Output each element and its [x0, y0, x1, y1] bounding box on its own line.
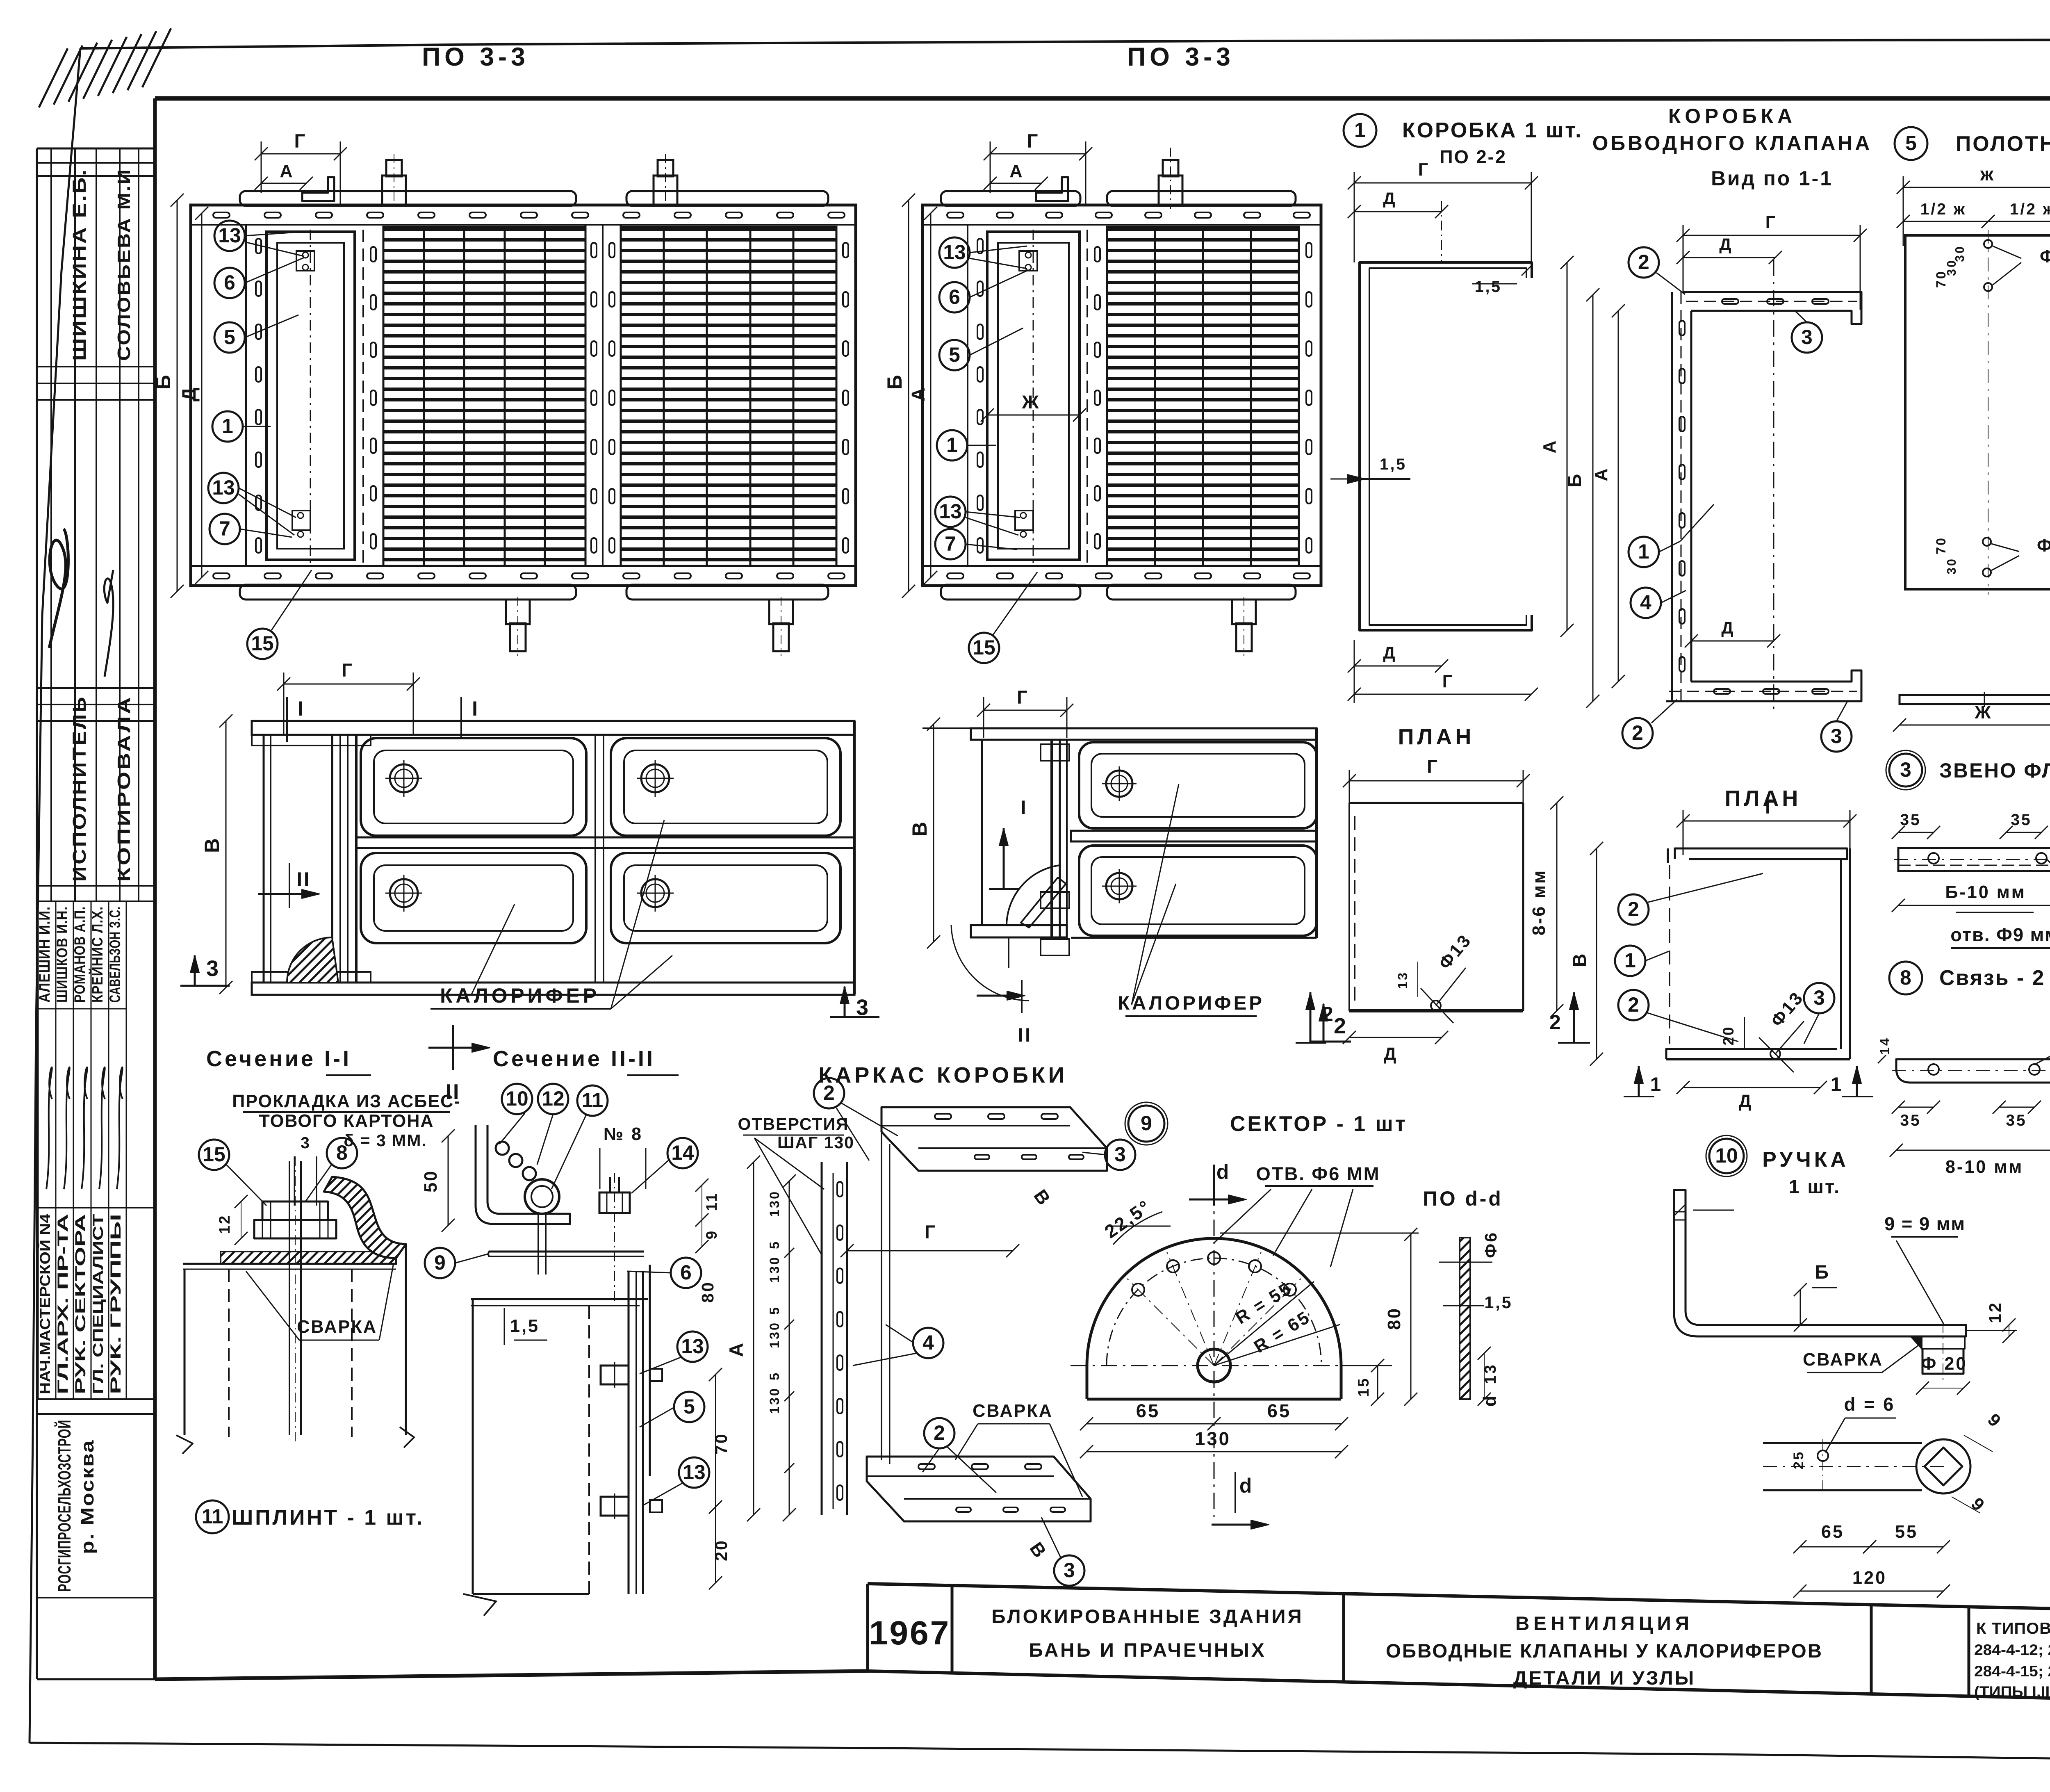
- section II-II L bracket: [476, 1125, 570, 1224]
- section I-I bolt stack: [262, 1202, 328, 1220]
- radiator 1 door hinge plates: [296, 251, 314, 271]
- vid callout 2 top: [1629, 247, 1659, 278]
- svg-text:Г: Г: [1765, 797, 1777, 818]
- svg-text:130: 130: [1195, 1428, 1231, 1449]
- svg-text:ВЕНТИЛЯЦИЯ: ВЕНТИЛЯЦИЯ: [1515, 1613, 1693, 1635]
- svg-text:Сечение II-II: Сечение II-II: [493, 1046, 655, 1071]
- radiator 2 top flange tabs: [941, 191, 1080, 206]
- front view 2 door leaf edge: [1050, 740, 1053, 938]
- section II-II bolt low: [601, 1497, 629, 1516]
- svg-text:В: В: [908, 820, 931, 837]
- svg-text:1: 1: [1650, 1074, 1663, 1095]
- svg-text:10: 10: [1715, 1144, 1738, 1167]
- radiator 2 callout 13b: [935, 497, 966, 527]
- section II-II dim 50: [448, 1136, 449, 1225]
- sheet left edge: [30, 48, 80, 1743]
- svg-text:14: 14: [1877, 1037, 1892, 1055]
- plan1 dim 8-6mm: [1556, 803, 1558, 1011]
- svg-text:13: 13: [212, 476, 235, 499]
- plan2 callout 2a: [1618, 894, 1649, 925]
- front view 2 bottom rail: [971, 925, 1067, 937]
- polotno strip below: [1900, 695, 2050, 704]
- radiator 1 door: [266, 232, 355, 560]
- karkas inner vertical: [881, 1132, 882, 1460]
- radiator 1 left slot column: [256, 239, 261, 253]
- sektor centrelines: [1071, 1365, 1374, 1366]
- svg-text:14: 14: [671, 1141, 694, 1164]
- label sektor: [1128, 1106, 1164, 1142]
- plan2 callout 1: [1615, 946, 1645, 976]
- svg-text:Г: Г: [1427, 756, 1439, 777]
- vid top flange: [1683, 292, 1861, 324]
- svg-text:d: d: [1216, 1160, 1230, 1183]
- front view 1 dim G top: [284, 684, 413, 685]
- radiator 2 callout 7: [935, 529, 966, 559]
- svg-text:9 = 9 мм: 9 = 9 мм: [1884, 1213, 1966, 1234]
- svg-text:3: 3: [1114, 1143, 1126, 1166]
- svg-text:13: 13: [683, 1461, 705, 1484]
- sektor hole circle dashdot: [1107, 1258, 1321, 1366]
- svg-text:130: 130: [767, 1321, 782, 1348]
- svg-text:15: 15: [203, 1143, 225, 1166]
- svg-text:3: 3: [206, 956, 220, 981]
- front view 1 panel row1 left: [361, 738, 586, 836]
- svg-text:3: 3: [301, 1134, 311, 1152]
- svg-text:К ТИПОВЫМ ПРОЕКТАМ: К ТИПОВЫМ ПРОЕКТАМ: [1976, 1620, 2050, 1637]
- section I-I washer plate: [221, 1252, 396, 1264]
- radiator 2 dashed jamb: [1086, 230, 1088, 564]
- corner herringbone marks: [39, 48, 68, 107]
- radiator 1 callout 13a: [214, 221, 245, 251]
- radiator 2 handle bracket top: [1036, 177, 1068, 201]
- svg-text:Б: Б: [1564, 472, 1585, 488]
- ruchka L-shape: [1674, 1190, 1966, 1336]
- svg-text:СОЛОВЬЕВА М.И: СОЛОВЬЕВА М.И: [114, 168, 134, 361]
- svg-text:II: II: [297, 869, 311, 890]
- plan1 square: [1349, 802, 1523, 804]
- svg-text:РОСГИПРОСЕЛЬХОЗСТРОЙ: РОСГИПРОСЕЛЬХОЗСТРОЙ: [55, 1420, 75, 1592]
- svg-text:ПЛАН: ПЛАН: [1725, 786, 1802, 811]
- svg-text:1: 1: [1638, 540, 1649, 563]
- svg-text:Сечение I-I: Сечение I-I: [206, 1046, 351, 1071]
- svg-text:2: 2: [1322, 1003, 1335, 1026]
- plan2 square: [1675, 848, 1847, 859]
- svg-text:Г: Г: [1017, 687, 1029, 708]
- front view 1 section mark I top: [286, 697, 288, 742]
- d-d bar: [1460, 1238, 1470, 1399]
- svg-text:7: 7: [219, 517, 230, 540]
- plan2 callout 3: [1804, 983, 1834, 1013]
- svg-text:20: 20: [712, 1539, 731, 1561]
- radiator 2 top nipple: [1163, 160, 1178, 176]
- svg-text:А: А: [1592, 467, 1611, 481]
- svg-text:120: 120: [1852, 1568, 1887, 1588]
- polotno top holes: [1984, 240, 1992, 248]
- sektor centre hole: [1198, 1349, 1230, 1382]
- section arrow II bottom: [428, 1047, 486, 1049]
- section II-II callout 13 low: [679, 1457, 709, 1488]
- front view 1 panel row1 right: [611, 738, 840, 836]
- svg-text:В: В: [1569, 952, 1590, 967]
- svg-text:Ж: Ж: [1974, 703, 1992, 723]
- section I-I plate line: [183, 1263, 396, 1265]
- stamp signature scrawl 2: [104, 570, 113, 677]
- svg-text:КАРКАС КОРОБКИ: КАРКАС КОРОБКИ: [818, 1063, 1067, 1088]
- radiator 1 callout 1: [212, 411, 243, 442]
- svg-text:35: 35: [1900, 811, 1921, 829]
- polotno centreline: [1988, 230, 1988, 595]
- svg-text:I: I: [1020, 797, 1027, 818]
- vid callout 2 bottom: [1622, 718, 1653, 748]
- svg-text:КОРОБКА: КОРОБКА: [1668, 105, 1796, 128]
- svg-text:ШПЛИНТ - 1 шт.: ШПЛИНТ - 1 шт.: [232, 1505, 424, 1529]
- sektor dim 65-65: [1086, 1423, 1214, 1425]
- svg-text:ПО d-d: ПО d-d: [1423, 1187, 1503, 1210]
- karkas callout 4: [913, 1328, 943, 1358]
- svg-text:30: 30: [1945, 557, 1959, 575]
- svg-text:Д: Д: [1719, 235, 1733, 254]
- svg-text:Б: Б: [883, 373, 906, 390]
- svg-text:СЕКТОР - 1 шт: СЕКТОР - 1 шт: [1230, 1112, 1408, 1135]
- svg-text:11: 11: [202, 1505, 223, 1528]
- front view 1 corner gusset: [287, 937, 338, 983]
- svg-text:КАЛОРИФЕР: КАЛОРИФЕР: [1118, 992, 1264, 1014]
- section I-I callout 8: [327, 1138, 357, 1168]
- karkas dim G: [847, 1250, 1013, 1252]
- front view 1 mid rail: [356, 837, 854, 848]
- karkas callout 3 top: [1105, 1140, 1135, 1170]
- svg-text:1,5: 1,5: [1380, 456, 1407, 473]
- svg-text:1: 1: [1354, 119, 1366, 141]
- vid callout 3 top: [1792, 322, 1822, 353]
- svg-text:d: d: [1480, 1394, 1500, 1407]
- plan1 section marks 2: [1310, 992, 1312, 1043]
- svg-text:65: 65: [1267, 1400, 1291, 1421]
- radiator 2 door: [987, 232, 1080, 560]
- svg-text:3: 3: [1900, 758, 1911, 781]
- svg-text:ШИШКИНА Е.Б.: ШИШКИНА Е.Б.: [69, 168, 90, 361]
- svg-text:2: 2: [823, 1081, 835, 1104]
- svg-text:70: 70: [712, 1432, 731, 1455]
- svg-text:Б-10 мм: Б-10 мм: [1945, 882, 2026, 902]
- front view 2 section I mark: [1003, 828, 1005, 889]
- radiator 2 callout 13a: [939, 237, 970, 268]
- svg-text:3: 3: [1831, 725, 1842, 748]
- svg-text:Д: Д: [1384, 1044, 1398, 1064]
- svg-text:4: 4: [922, 1331, 934, 1354]
- svg-text:1,5: 1,5: [510, 1316, 540, 1336]
- svg-text:65: 65: [1821, 1522, 1844, 1542]
- karkas callout 2 bottom: [924, 1418, 954, 1448]
- svg-text:В: В: [200, 837, 223, 853]
- svg-text:284-4-15; 284-4-16; 284-3-17: 284-4-15; 284-4-16; 284-3-17: [1974, 1663, 2050, 1680]
- vid centreline vertical: [1773, 260, 1774, 715]
- svg-text:20: 20: [1720, 1026, 1737, 1046]
- vid bottom flange: [1666, 670, 1861, 701]
- korobka C profile: [1369, 268, 1526, 625]
- svg-text:70: 70: [1934, 536, 1948, 554]
- svg-text:А: А: [1540, 439, 1560, 453]
- svg-text:ОТВ. Ф6 ММ: ОТВ. Ф6 ММ: [1256, 1163, 1380, 1184]
- polotno dims half-Zh: [1903, 221, 1988, 222]
- svg-text:А: А: [908, 386, 929, 401]
- section I-I lower box: [184, 1269, 186, 1435]
- svg-text:2: 2: [1628, 993, 1639, 1016]
- plan2 section marks 1: [1638, 1066, 1640, 1097]
- section I-I duct S-curve: [324, 1177, 406, 1258]
- sheet top edge: [80, 39, 2050, 48]
- svg-text:1 шт.: 1 шт.: [1789, 1176, 1841, 1198]
- svg-text:1: 1: [1831, 1074, 1843, 1095]
- svg-text:3: 3: [1801, 326, 1813, 349]
- front view 1 door edge strip: [331, 735, 333, 983]
- svg-text:2: 2: [1549, 1011, 1563, 1034]
- svg-text:9: 9: [703, 1229, 720, 1239]
- vid dim G top: [1683, 235, 1860, 236]
- svg-text:РУК. ГРУППЫ: РУК. ГРУППЫ: [107, 1214, 124, 1394]
- svg-text:ПЛАН: ПЛАН: [1398, 725, 1475, 749]
- label ruchka: [1709, 1139, 1744, 1173]
- section II-II horizontal rod: [489, 1251, 644, 1253]
- karkas dim ladder 130: [789, 1181, 790, 1515]
- plan1 dim D bottom: [1349, 1037, 1442, 1038]
- radiator 2 right slot column: [1306, 243, 1312, 258]
- plan1 dim G: [1349, 780, 1523, 782]
- svg-text:2: 2: [1638, 251, 1649, 274]
- svg-text:СВАРКА: СВАРКА: [1803, 1350, 1883, 1370]
- sektor dim 80: [1410, 1234, 1412, 1399]
- svg-text:Д: Д: [1383, 189, 1396, 208]
- svg-text:15: 15: [973, 636, 995, 659]
- front view 1 panel row2 left: [361, 853, 586, 943]
- svg-text:65: 65: [1136, 1400, 1160, 1421]
- svg-text:Ф9: Ф9: [2037, 536, 2050, 556]
- svg-text:5: 5: [949, 343, 960, 366]
- sektor dim 15: [1377, 1366, 1378, 1399]
- svg-text:9: 9: [1141, 1112, 1152, 1135]
- front view 2 door hinge tabs: [1041, 744, 1069, 761]
- svg-text:ПО 2-2: ПО 2-2: [1440, 146, 1507, 167]
- section II-II door plate: [628, 1271, 630, 1594]
- svg-text:6: 6: [949, 285, 960, 308]
- radiator 1 handle bracket top: [302, 177, 334, 201]
- radiator 2 dim A left: [930, 213, 932, 577]
- karkas dim A: [753, 1162, 754, 1515]
- ruchka weld triangle: [1911, 1336, 1922, 1349]
- svg-text:13: 13: [218, 224, 241, 247]
- section II-II callout 9: [425, 1248, 455, 1278]
- radiator 1 dashed jamb line: [362, 230, 364, 564]
- svg-text:1,5: 1,5: [1484, 1293, 1512, 1312]
- svg-text:35: 35: [2006, 1112, 2027, 1129]
- svg-text:СВАРКА: СВАРКА: [297, 1317, 377, 1337]
- svg-text:КАЛОРИФЕР: КАЛОРИФЕР: [440, 984, 600, 1007]
- svg-text:ПОЛОТНО 1 шт.: ПОЛОТНО 1 шт.: [1956, 132, 2050, 155]
- svg-text:284-4-12; 284-4-13; 284-3-14: 284-4-12; 284-4-13; 284-3-14: [1974, 1642, 2050, 1658]
- svg-text:5: 5: [224, 326, 235, 349]
- drawing frame: [155, 96, 2050, 101]
- front view 1 section mark I inner: [460, 697, 462, 738]
- radiator 1 callout 7: [210, 514, 240, 544]
- front view 1 left top flange: [252, 735, 371, 746]
- svg-text:КОРОБКА 1 шт.: КОРОБКА 1 шт.: [1402, 118, 1583, 142]
- front view 2 left wall: [981, 740, 983, 925]
- section II-II panel top line: [471, 1298, 648, 1300]
- front view 2 mid rail: [1071, 831, 1317, 841]
- karkas callout 3 bottom: [1054, 1555, 1084, 1586]
- radiator 1 dim D left: [201, 213, 203, 577]
- svg-text:ДЕТАЛИ И УЗЛЫ: ДЕТАЛИ И УЗЛЫ: [1513, 1667, 1696, 1689]
- vid callout 1: [1629, 537, 1659, 567]
- stamp column outer box: [37, 148, 155, 150]
- front view 2 dim G top: [984, 710, 1067, 711]
- section II-II callout 13 mid: [677, 1331, 708, 1362]
- zveno bar 1: [1898, 848, 2050, 871]
- front view 1 panel row2 left circle: [390, 879, 418, 907]
- svg-text:2: 2: [1334, 1014, 1348, 1038]
- svg-text:10: 10: [506, 1087, 528, 1110]
- title block outline: [868, 1584, 2050, 1616]
- front view 1 bottom left flange: [252, 972, 371, 983]
- svg-text:I: I: [472, 697, 479, 720]
- svg-text:НАЧ.МАСТЕРСКОЙ N4: НАЧ.МАСТЕРСКОЙ N4: [37, 1214, 53, 1394]
- svg-text:Д: Д: [1739, 1092, 1753, 1111]
- svg-text:Г: Г: [1765, 212, 1777, 232]
- ruchka dim 120: [1800, 1591, 1943, 1592]
- svg-text:70: 70: [1934, 270, 1948, 288]
- section I-I callout 15: [199, 1140, 229, 1170]
- front view 1 panel row1 left circle: [390, 764, 418, 792]
- front view 1 mid divider: [594, 735, 596, 983]
- section arrow 2 right of view2: [1323, 1004, 1325, 1042]
- section II-II chain: [496, 1142, 509, 1155]
- radiator 2 bottom flange tabs: [941, 585, 1080, 600]
- sektor body: [1087, 1238, 1341, 1399]
- svg-text:13: 13: [1395, 971, 1410, 989]
- svg-text:d = 6: d = 6: [1844, 1394, 1895, 1415]
- section II-II panel left wall: [472, 1299, 474, 1594]
- korobka dim G top: [1354, 182, 1531, 184]
- radiator 1 top flange tabs: [240, 191, 576, 206]
- plan2 dim D bottom: [1683, 1087, 1820, 1088]
- radiator 2 dim Zh inside door: [987, 415, 1080, 416]
- svg-text:1: 1: [1624, 949, 1636, 972]
- section II-II bottom break: [463, 1594, 496, 1616]
- svg-text:(ТИПЫ I,II,III) ; 284-4-18: (ТИПЫ I,II,III) ; 284-4-18: [1974, 1683, 2050, 1700]
- radiator 1 inner rail lines: [191, 224, 856, 226]
- svg-text:1: 1: [946, 433, 958, 456]
- korobka dim D top: [1354, 211, 1442, 212]
- front view 2 top rail: [971, 728, 1317, 740]
- svg-text:4: 4: [1640, 591, 1651, 614]
- zveno dim B-10: [1898, 905, 2050, 906]
- svg-text:Ж: Ж: [1022, 392, 1041, 413]
- svg-text:130: 130: [767, 1190, 782, 1217]
- front view 1 section mark II: [289, 863, 290, 908]
- label shplint bottom-left: [196, 1500, 229, 1533]
- svyaz dims 35 bottom: [1898, 1107, 1934, 1108]
- stamp five-row dividers: [38, 901, 39, 1399]
- plan2 callout 2b: [1618, 990, 1649, 1020]
- svg-text:5: 5: [767, 1306, 782, 1315]
- svg-text:12: 12: [216, 1214, 233, 1234]
- vid left column: [1671, 292, 1673, 701]
- ruchka bar end circle: [1916, 1439, 1970, 1493]
- svg-text:15: 15: [251, 632, 273, 655]
- sektor dim 130: [1086, 1451, 1342, 1452]
- svg-text:БАНЬ И ПРАЧЕЧНЫХ: БАНЬ И ПРАЧЕЧНЫХ: [1029, 1639, 1266, 1661]
- stamp horizontal lines lower: [37, 1207, 155, 1208]
- svg-text:РУК. СЕКТОРА: РУК. СЕКТОРА: [72, 1214, 89, 1394]
- vid dim A inner: [1618, 311, 1619, 682]
- ruchka dim 12 top: [1693, 1210, 1734, 1211]
- svg-text:Ф6: Ф6: [1481, 1231, 1500, 1258]
- radiator 2 left slot column: [977, 239, 983, 253]
- svg-text:КОПИРОВАЛА: КОПИРОВАЛА: [114, 695, 134, 882]
- plan2 dim G: [1683, 821, 1850, 822]
- plan1 hole f13: [1431, 1001, 1441, 1010]
- svg-text:Ф 20: Ф 20: [1921, 1354, 1968, 1374]
- front view 2 dim V left: [933, 724, 934, 942]
- radiator 1 centre mullions: [585, 225, 587, 566]
- korobka dim D bottom: [1354, 666, 1442, 667]
- svg-text:А: А: [280, 162, 294, 181]
- section II-II callouts 10 12 11: [502, 1084, 532, 1114]
- radiator 1 hatch panel B: [621, 227, 836, 566]
- svg-text:БЛОКИРОВАННЫЕ ЗДАНИЯ: БЛОКИРОВАННЫЕ ЗДАНИЯ: [991, 1606, 1303, 1628]
- svg-text:8: 8: [336, 1141, 348, 1164]
- svg-text:ОТВЕРСТИЯ: ОТВЕРСТИЯ: [738, 1115, 849, 1133]
- radiator 2 callout 1: [937, 430, 967, 461]
- front view 2 corner arc and strut: [1007, 865, 1060, 925]
- svg-text:Б: Б: [1815, 1261, 1830, 1283]
- svg-text:1/2 ж: 1/2 ж: [2010, 201, 2050, 218]
- vid callout 4: [1631, 588, 1661, 618]
- radiator 2 hatch panel: [1107, 227, 1299, 566]
- front view 1 panel row2 right circle: [641, 879, 669, 907]
- svg-text:ПО 3-3: ПО 3-3: [422, 43, 529, 71]
- sektor small holes: [1208, 1252, 1220, 1264]
- ruchka end boss: [1922, 1336, 1965, 1349]
- zveno dims 35 top: [1898, 832, 1934, 833]
- front view 2 panel bottom: [1079, 846, 1317, 936]
- section I-I stud: [289, 1161, 290, 1435]
- radiator 1 outer frame: [191, 205, 856, 586]
- radiator 1 top nipple 2: [658, 160, 673, 176]
- svg-text:Д: Д: [178, 386, 200, 401]
- svg-text:Г: Г: [925, 1222, 937, 1243]
- svyaz dim B-10 bottom: [1896, 1150, 2050, 1151]
- front view 2 panel top: [1079, 742, 1317, 828]
- svg-text:2: 2: [1628, 898, 1639, 921]
- svg-text:130: 130: [767, 1256, 782, 1283]
- front view 1 right edge: [853, 721, 856, 994]
- radiator 2 door hinge plates: [1019, 251, 1037, 271]
- ruchka dim 65: [1800, 1546, 1870, 1548]
- svg-text:5: 5: [767, 1240, 782, 1249]
- stamp horizontal lines upper: [37, 162, 155, 164]
- radiator 2 callout 5: [939, 340, 970, 370]
- radiator 1 callout 5: [214, 322, 245, 353]
- section arrow 3 right: [844, 987, 846, 1017]
- svg-text:13: 13: [939, 500, 961, 523]
- radiator 1 dim G top: [261, 153, 340, 155]
- svg-text:5: 5: [767, 1371, 782, 1380]
- karkas bottom rail isometric: [867, 1457, 1091, 1521]
- svg-text:ОБВОДНЫЕ КЛАПАНЫ У КАЛОРИФЕ: ОБВОДНЫЕ КЛАПАНЫ У КАЛОРИФЕРОВ: [1386, 1640, 1823, 1662]
- svg-text:Б: Б: [152, 373, 175, 390]
- vid dim B left: [1592, 295, 1594, 701]
